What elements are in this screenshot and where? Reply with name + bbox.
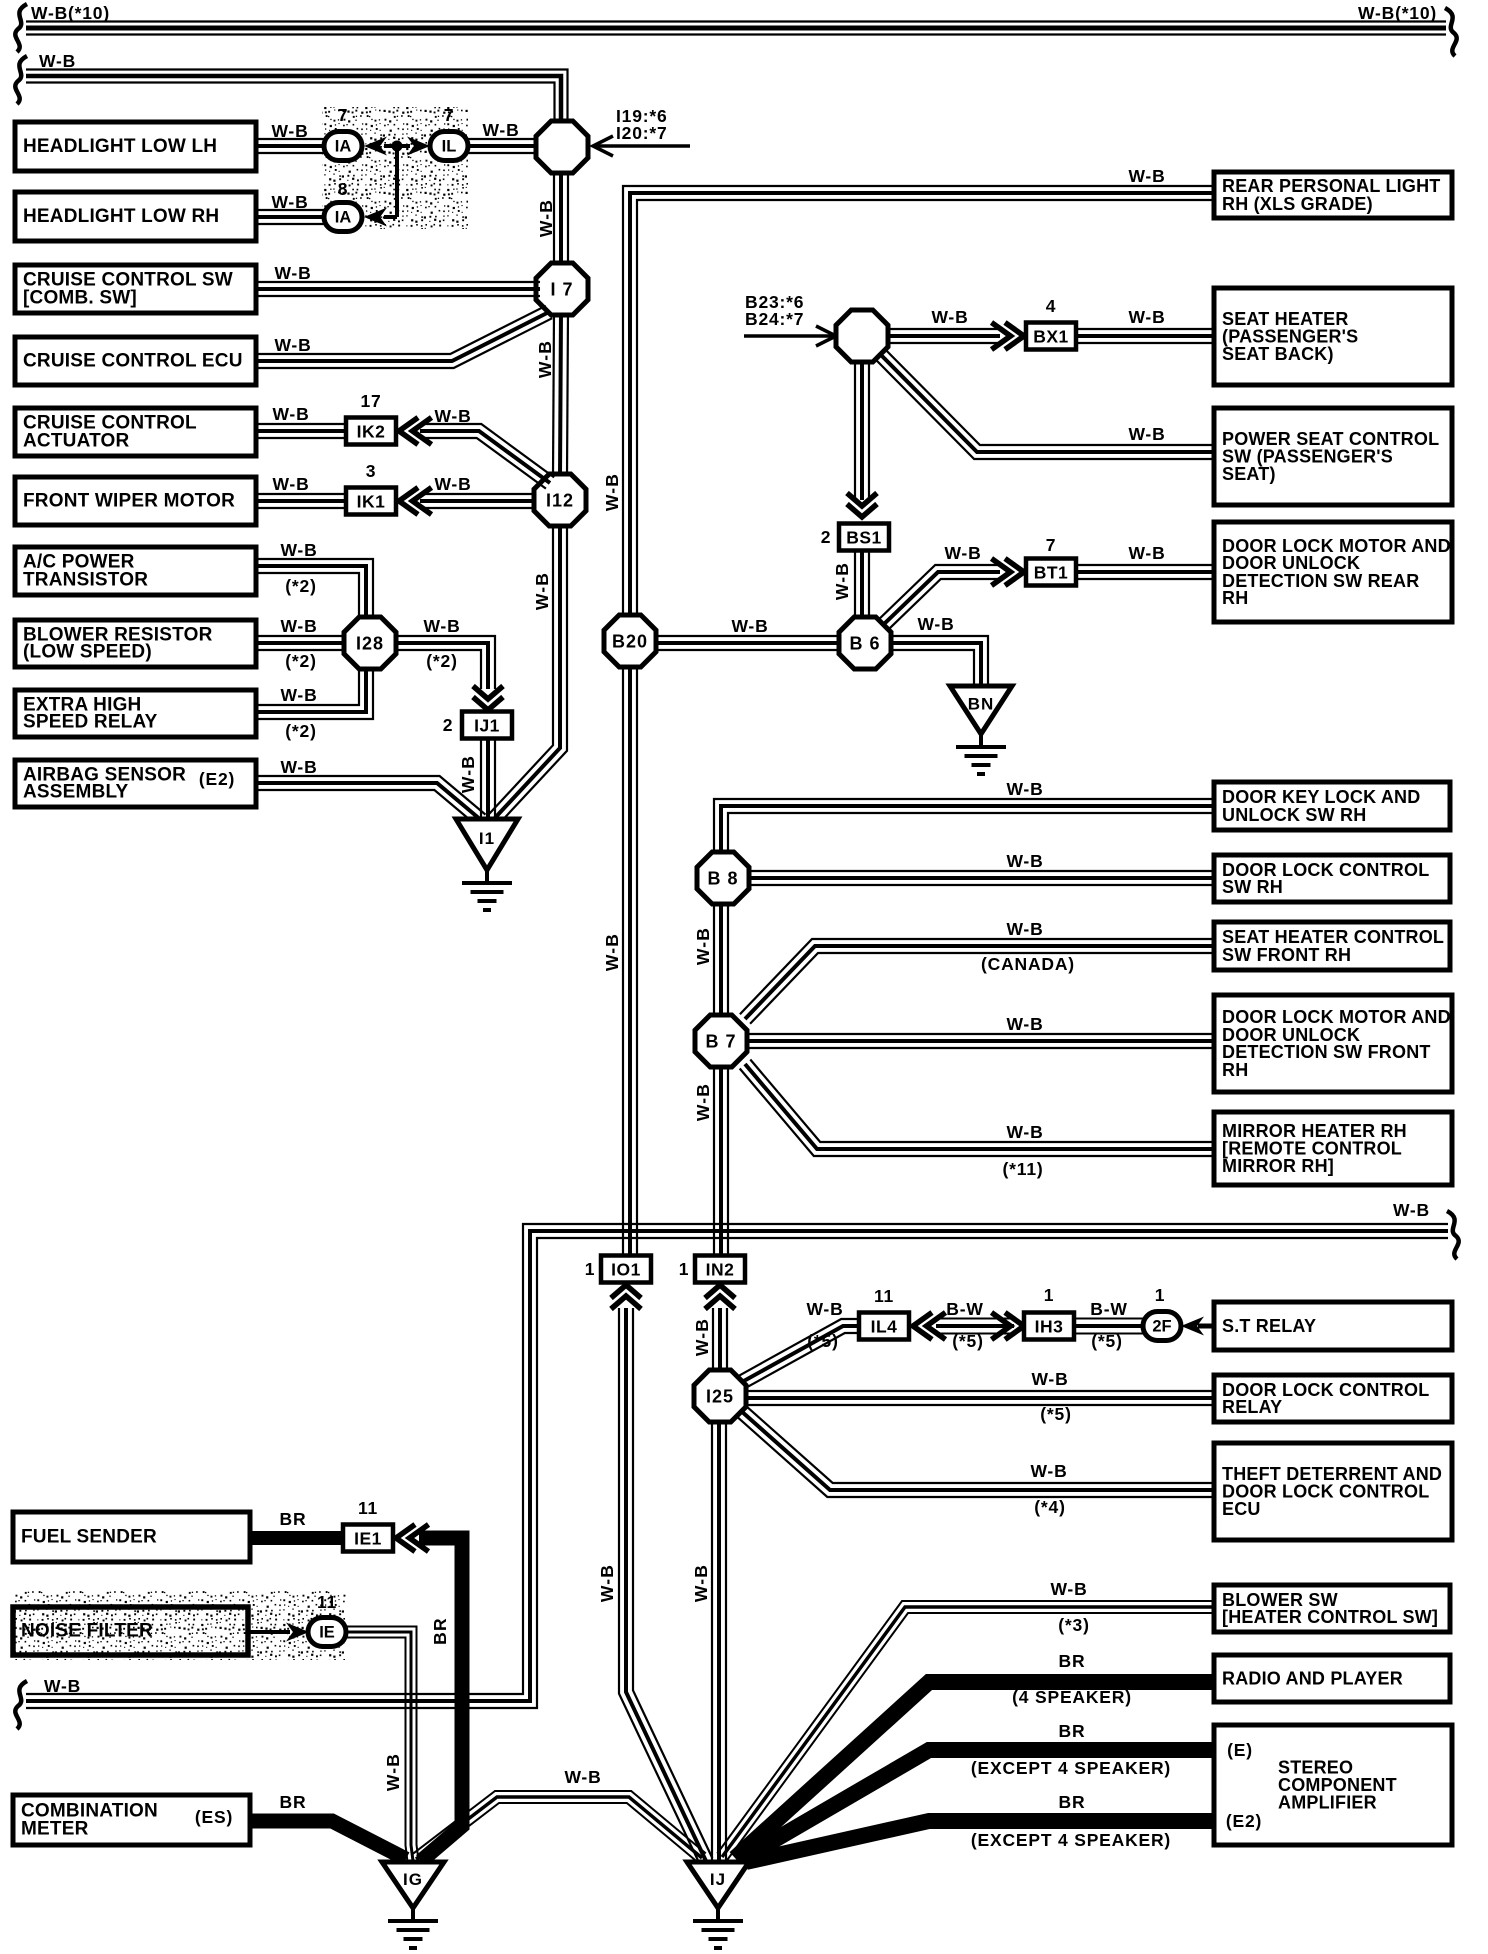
- box SEAT HEATER: [1214, 288, 1452, 385]
- svg-text:2: 2: [821, 527, 832, 547]
- box NOISE FILTER: [13, 1607, 248, 1655]
- wire B-W IL4 to IH3: [936, 1319, 1014, 1334]
- svg-text:BN: BN: [968, 695, 995, 714]
- svg-text:RADIO AND PLAYER: RADIO AND PLAYER: [1222, 1669, 1403, 1689]
- svg-text:W-B: W-B: [39, 51, 76, 71]
- wire B6 to BT1: [878, 565, 1000, 630]
- svg-text:METER: METER: [21, 1818, 89, 1839]
- label W-B seat heater control: [1006, 919, 1043, 939]
- chevron below IN2: [705, 1285, 735, 1309]
- svg-text:HEADLIGHT LOW LH: HEADLIGHT LOW LH: [23, 136, 217, 157]
- svg-text:(EXCEPT 4 SPEAKER): (EXCEPT 4 SPEAKER): [971, 1830, 1171, 1850]
- wire IO1 to IJ: [619, 1308, 712, 1864]
- svg-text:4: 4: [1046, 296, 1057, 316]
- label (ES) combination: [195, 1807, 233, 1827]
- svg-text:AMPLIFIER: AMPLIFIER: [1278, 1793, 1377, 1813]
- svg-text:W-B: W-B: [944, 543, 981, 563]
- connector IA lower: [324, 203, 362, 232]
- wire IK1 to I12: [420, 494, 535, 508]
- label W-B front wiper left: [272, 474, 309, 494]
- svg-text:W-B: W-B: [564, 1767, 601, 1787]
- svg-text:IL4: IL4: [871, 1317, 898, 1337]
- svg-text:BR: BR: [1059, 1792, 1086, 1812]
- svg-text:W-B: W-B: [423, 616, 460, 636]
- pin 1 IN2: [679, 1259, 690, 1279]
- label BR radio: [1059, 1651, 1086, 1671]
- svg-text:W-B: W-B: [280, 685, 317, 705]
- ground IG: [382, 1862, 444, 1948]
- svg-text:2: 2: [443, 715, 454, 735]
- label W-B cruise actuator left: [272, 404, 309, 424]
- svg-text:B-W: B-W: [946, 1299, 983, 1319]
- chevron BX1: [992, 323, 1025, 350]
- wire blower resistor to I28: [252, 636, 345, 650]
- pin 8 IA lower: [338, 179, 349, 199]
- label W-B I28 right: [423, 616, 460, 636]
- svg-text:(CANADA): (CANADA): [981, 954, 1075, 974]
- label W-B B6-BT1: [944, 543, 981, 563]
- wire IK2 to I12: [420, 424, 554, 489]
- label W-B door key: [1006, 779, 1043, 799]
- svg-text:BT1: BT1: [1034, 563, 1069, 583]
- box DOOR LOCK CONTROL RELAY: [1214, 1375, 1452, 1422]
- label W-B(*10) right: [1358, 3, 1437, 23]
- chevron BT1: [992, 559, 1025, 586]
- svg-text:W-B: W-B: [280, 757, 317, 777]
- wire I25 to IJ: [712, 1420, 726, 1860]
- label W-B second bus: [39, 51, 76, 71]
- svg-text:[COMB. SW]: [COMB. SW]: [23, 287, 137, 308]
- junction dot headlight: [384, 141, 410, 218]
- label W-B power seat: [1128, 424, 1165, 444]
- svg-text:SPEED RELAY: SPEED RELAY: [23, 712, 158, 733]
- wire IN2 to I25: [713, 1308, 727, 1373]
- svg-text:BR: BR: [1059, 1721, 1086, 1741]
- break symbol second bus left: [15, 56, 27, 104]
- box MIRROR HEATER RH: [1214, 1112, 1452, 1185]
- label BR vertical: [430, 1617, 450, 1645]
- wire cruise control ecu to I7: [252, 306, 552, 368]
- wire IE to IG: [346, 1627, 419, 1862]
- svg-text:W-B: W-B: [693, 927, 713, 965]
- label W-B headlight lh: [271, 121, 308, 141]
- label W-B mirror heater: [1006, 1122, 1043, 1142]
- svg-text:W-B: W-B: [1050, 1579, 1087, 1599]
- wire a/c power transistor to I28: [252, 559, 373, 620]
- wire cruise actuator to IK2: [252, 424, 347, 438]
- wire B7 to mirror heater: [740, 1060, 1212, 1157]
- bus W-B second: [26, 70, 568, 127]
- box RADIO AND PLAYER: [1214, 1655, 1450, 1702]
- label W-B blower resistor: [280, 616, 317, 636]
- svg-text:IO1: IO1: [611, 1260, 641, 1280]
- label W-B IN2-I25: [692, 1318, 712, 1356]
- wire I7 to I12: [553, 311, 568, 476]
- svg-text:W-B: W-B: [917, 614, 954, 634]
- svg-text:W-B: W-B: [383, 1753, 403, 1791]
- junction octagon unlabeled B23: [836, 310, 888, 362]
- connector IH3: [1024, 1313, 1074, 1340]
- svg-text:W-B: W-B: [1006, 851, 1043, 871]
- svg-text:W-B: W-B: [535, 340, 555, 378]
- svg-text:(*11): (*11): [1003, 1159, 1044, 1179]
- arrow to IA lower: [364, 208, 387, 227]
- svg-text:FRONT WIPER MOTOR: FRONT WIPER MOTOR: [23, 491, 235, 512]
- label W-B vertical B20 upper: [602, 473, 622, 511]
- label W-B IE wire: [383, 1753, 403, 1791]
- svg-text:W-B: W-B: [271, 121, 308, 141]
- svg-text:BR: BR: [280, 1509, 307, 1529]
- wire B20 to B6: [654, 636, 842, 650]
- pin 1 2F: [1155, 1285, 1166, 1305]
- svg-text:SEAT): SEAT): [1222, 464, 1276, 484]
- svg-text:(EXCEPT 4 SPEAKER): (EXCEPT 4 SPEAKER): [971, 1758, 1171, 1778]
- label BR stereo E: [1059, 1721, 1086, 1741]
- label (*11) mirror heater: [1003, 1159, 1044, 1179]
- break symbol right middle: [1447, 1211, 1459, 1259]
- wire octagon2 down to BS1: [855, 360, 869, 500]
- label W-B airbag: [280, 757, 317, 777]
- label W-B IJ1-I1: [458, 755, 478, 793]
- label W-B bottom bus: [44, 1676, 81, 1696]
- connector IE1: [343, 1525, 393, 1552]
- label W-B BT1-box: [1128, 543, 1165, 563]
- svg-text:17: 17: [360, 391, 381, 411]
- label W-B B6-BN: [917, 614, 954, 634]
- svg-text:W-B: W-B: [931, 307, 968, 327]
- label (EXCEPT 4 SPEAKER) E: [971, 1758, 1171, 1778]
- label B-W 2: [1090, 1299, 1127, 1319]
- svg-text:W-B: W-B: [272, 404, 309, 424]
- svg-text:TRANSISTOR: TRANSISTOR: [23, 569, 148, 590]
- junction I28: [344, 617, 396, 669]
- pin 7 BT1: [1046, 535, 1057, 555]
- wire fuel sender to IE1 BR: [249, 1531, 345, 1545]
- connector IL: [430, 132, 468, 161]
- label W-B cruise sw: [274, 263, 311, 283]
- svg-text:(*5): (*5): [1040, 1404, 1071, 1424]
- svg-text:W-B: W-B: [1128, 307, 1165, 327]
- label W-B right middle: [1393, 1200, 1430, 1220]
- junction I25: [694, 1370, 746, 1422]
- wire headlight low lh to IA: [252, 139, 330, 153]
- shaded region noise filter: [15, 1590, 346, 1660]
- wire IJ1 to ground I1: [481, 738, 495, 820]
- label W-B vertical IO1: [597, 1564, 617, 1602]
- wire I25 to door lock relay: [745, 1391, 1212, 1405]
- svg-text:RH: RH: [1222, 588, 1248, 608]
- svg-text:W-B(*10): W-B(*10): [31, 3, 110, 23]
- svg-text:W-B: W-B: [458, 755, 478, 793]
- wire BX1 to seat heater box: [1076, 329, 1212, 343]
- svg-text:(E2): (E2): [1226, 1811, 1262, 1831]
- svg-text:W-B: W-B: [731, 616, 768, 636]
- svg-text:W-B(*10): W-B(*10): [1358, 3, 1437, 23]
- svg-text:B 6: B 6: [849, 634, 880, 654]
- svg-text:BR: BR: [1059, 1651, 1086, 1671]
- chevron below IO1: [611, 1285, 641, 1309]
- wire IL to octagon: [462, 139, 540, 153]
- svg-text:W-B: W-B: [536, 199, 556, 237]
- wire I12 to ground I1: [488, 524, 567, 825]
- svg-text:IA: IA: [335, 209, 352, 227]
- chevron IL4: [913, 1313, 946, 1340]
- svg-text:BR: BR: [280, 1792, 307, 1812]
- svg-text:2F: 2F: [1152, 1318, 1171, 1336]
- svg-text:W-B: W-B: [1128, 166, 1165, 186]
- svg-text:ECU: ECU: [1222, 1499, 1261, 1519]
- svg-text:7: 7: [444, 105, 455, 125]
- label (E2) stereo: [1226, 1811, 1262, 1831]
- wire airbag to ground I1: [252, 776, 486, 825]
- arrow B23 B24 into octagon: [744, 326, 836, 346]
- connector IN2: [695, 1256, 745, 1283]
- svg-text:W-B: W-B: [271, 192, 308, 212]
- box DOOR LOCK MOTOR FRONT RH: [1214, 995, 1452, 1092]
- svg-text:W-B: W-B: [272, 474, 309, 494]
- label W-B octagon2-BX1: [931, 307, 968, 327]
- svg-text:IN2: IN2: [706, 1260, 735, 1280]
- label W-B IL-octagon: [482, 120, 519, 140]
- box CRUISE CONTROL ACTUATOR: [15, 408, 256, 456]
- arrow to IL: [407, 137, 430, 156]
- chevron above IJ1: [473, 686, 503, 710]
- svg-text:I12: I12: [546, 491, 574, 511]
- svg-text:W-B: W-B: [274, 335, 311, 355]
- box DOOR LOCK CONTROL SW RH: [1214, 855, 1450, 902]
- chevron IK1: [399, 488, 432, 515]
- svg-text:W-B: W-B: [434, 474, 471, 494]
- label W-B blower sw: [1050, 1579, 1087, 1599]
- label (*2) blower resistor: [285, 651, 316, 671]
- svg-text:[HEATER CONTROL SW]: [HEATER CONTROL SW]: [1222, 1607, 1438, 1627]
- label W-B headlight rh: [271, 192, 308, 212]
- svg-text:I28: I28: [356, 634, 384, 654]
- label I20:*7: [616, 123, 668, 143]
- svg-text:RH: RH: [1222, 1060, 1248, 1080]
- svg-text:W-B: W-B: [280, 540, 317, 560]
- svg-text:ASSEMBLY: ASSEMBLY: [23, 782, 129, 803]
- svg-text:7: 7: [338, 105, 349, 125]
- label (*2) I28 right: [426, 651, 457, 671]
- svg-text:W-B: W-B: [482, 120, 519, 140]
- wire B7 to seat heater control sw: [740, 939, 1212, 1024]
- svg-text:BS1: BS1: [846, 528, 882, 548]
- svg-text:(LOW SPEED): (LOW SPEED): [23, 642, 152, 663]
- pin 11 IE1: [358, 1498, 378, 1518]
- box AIRBAG SENSOR ASSEMBLY: [15, 760, 256, 807]
- connector BS1: [839, 524, 889, 551]
- svg-text:I20:*7: I20:*7: [616, 123, 668, 143]
- chevron IK2: [399, 418, 432, 445]
- label W-B extra high: [280, 685, 317, 705]
- svg-text:1: 1: [1155, 1285, 1166, 1305]
- svg-text:IE1: IE1: [354, 1529, 382, 1549]
- ground IJ: [687, 1862, 749, 1948]
- label W-B cruise actuator right: [434, 406, 471, 426]
- arrow noise filter to IE: [248, 1623, 309, 1642]
- svg-text:W-B: W-B: [1006, 919, 1043, 939]
- svg-text:BR: BR: [430, 1617, 450, 1645]
- svg-text:B20: B20: [612, 632, 648, 652]
- pin 2 BS1: [821, 527, 832, 547]
- label W-B B8-B7: [693, 927, 713, 965]
- connector IO1: [601, 1256, 651, 1283]
- connector BT1: [1026, 559, 1076, 586]
- svg-text:11: 11: [358, 1498, 378, 1518]
- svg-text:11: 11: [874, 1286, 894, 1306]
- svg-text:W-B: W-B: [1128, 424, 1165, 444]
- label W-B door lock front: [1006, 1014, 1043, 1034]
- svg-text:IE: IE: [319, 1624, 335, 1642]
- svg-text:IK2: IK2: [357, 422, 386, 442]
- svg-text:ACTUATOR: ACTUATOR: [23, 430, 130, 451]
- svg-text:(*2): (*2): [426, 651, 457, 671]
- wire B7 to door lock front: [747, 1034, 1212, 1048]
- chevron IH3: [992, 1313, 1025, 1340]
- svg-text:UNLOCK SW RH: UNLOCK SW RH: [1222, 805, 1366, 825]
- wire BR IJ to stereo E2: [746, 1821, 1212, 1862]
- svg-text:(*5): (*5): [952, 1331, 983, 1351]
- label W-B a/c: [280, 540, 317, 560]
- label B23:*6: [745, 292, 804, 312]
- wire rear personal light to B20: [623, 186, 1212, 620]
- connector IK1: [346, 488, 396, 515]
- box CRUISE CONTROL SW: [15, 265, 256, 313]
- connector IJ1: [462, 712, 512, 739]
- pin 7 IA upper: [338, 105, 349, 125]
- label W-B IG-IJ: [564, 1767, 601, 1787]
- svg-text:W-B: W-B: [532, 572, 552, 610]
- ground I1: [456, 819, 518, 910]
- svg-text:W-B: W-B: [1006, 1014, 1043, 1034]
- junction octagon unlabeled top: [536, 121, 588, 173]
- wire front wiper to IK1: [252, 494, 347, 508]
- svg-text:B24:*7: B24:*7: [745, 309, 804, 329]
- label (E2) airbag: [199, 769, 235, 789]
- ground BN: [950, 686, 1012, 774]
- svg-text:DETECTION SW REAR: DETECTION SW REAR: [1222, 571, 1419, 591]
- chevron above BS1: [847, 493, 877, 517]
- wire cruise control sw to I7: [252, 282, 540, 296]
- svg-text:CRUISE CONTROL ECU: CRUISE CONTROL ECU: [23, 351, 243, 372]
- svg-text:(ES): (ES): [195, 1807, 233, 1827]
- label (*5) I25-IL4: [807, 1331, 838, 1351]
- connector IL4: [859, 1313, 909, 1340]
- box COMBINATION METER: [13, 1795, 250, 1845]
- wire BR IJ to stereo E: [740, 1750, 1212, 1860]
- svg-text:W-B: W-B: [1006, 1122, 1043, 1142]
- svg-text:SW FRONT RH: SW FRONT RH: [1222, 945, 1351, 965]
- wire B-W IH3 to 2F: [1073, 1319, 1146, 1334]
- wire combination meter BR to IG: [249, 1821, 406, 1859]
- svg-text:W-B: W-B: [434, 406, 471, 426]
- pin 4 BX1: [1046, 296, 1057, 316]
- bus W-B bottom left to right edge: [26, 1224, 1448, 1708]
- wire IJ to blower sw: [717, 1601, 1212, 1861]
- svg-text:(*3): (*3): [1058, 1615, 1089, 1635]
- pin 11 IL4: [874, 1286, 894, 1306]
- svg-text:W-B: W-B: [274, 263, 311, 283]
- label W-B BS1-B6: [832, 562, 852, 600]
- arrow to IA upper: [364, 137, 387, 156]
- label (*5) 2: [952, 1331, 983, 1351]
- junction I 7: [536, 263, 588, 315]
- label BR stereo E2: [1059, 1792, 1086, 1812]
- svg-text:W-B: W-B: [602, 473, 622, 511]
- svg-text:(*2): (*2): [285, 721, 316, 741]
- wire headlight low rh to IA: [252, 210, 330, 224]
- svg-text:IJ1: IJ1: [474, 716, 500, 736]
- label W-B below B7: [693, 1083, 713, 1121]
- label (EXCEPT 4 SPEAKER) E2: [971, 1830, 1171, 1850]
- svg-text:W-B: W-B: [1393, 1200, 1430, 1220]
- label B24:*7: [745, 309, 804, 329]
- svg-text:W-B: W-B: [806, 1299, 843, 1319]
- svg-text:(E): (E): [1227, 1740, 1253, 1760]
- break symbol top right: [1445, 8, 1457, 56]
- label W-B vertical below I12: [532, 572, 552, 610]
- box SEAT HEATER CONTROL SW: [1214, 922, 1450, 970]
- svg-text:HEADLIGHT LOW RH: HEADLIGHT LOW RH: [23, 206, 219, 227]
- svg-text:1: 1: [585, 1259, 596, 1279]
- svg-text:IG: IG: [403, 1870, 423, 1889]
- box FRONT WIPER MOTOR: [15, 477, 256, 525]
- label I19:*6: [616, 106, 668, 126]
- svg-text:DETECTION SW FRONT: DETECTION SW FRONT: [1222, 1042, 1431, 1062]
- svg-text:11: 11: [317, 1592, 337, 1612]
- svg-text:(*2): (*2): [285, 651, 316, 671]
- pin 17 IK2: [360, 391, 381, 411]
- label (*4) theft: [1034, 1497, 1065, 1517]
- wire extra high speed relay to I28: [252, 667, 373, 719]
- svg-text:W-B: W-B: [693, 1083, 713, 1121]
- svg-text:(*4): (*4): [1034, 1497, 1065, 1517]
- label W-B vertical octagon-I7: [536, 199, 556, 237]
- box DOOR KEY LOCK: [1214, 782, 1450, 830]
- svg-text:W-B: W-B: [597, 1564, 617, 1602]
- svg-text:W-B: W-B: [1030, 1461, 1067, 1481]
- label W-B vertical I25: [691, 1564, 711, 1602]
- box A/C POWER TRANSISTOR: [15, 547, 256, 595]
- wire B7 down to IN2: [714, 1066, 728, 1258]
- chevron IE1: [396, 1525, 429, 1552]
- svg-text:BX1: BX1: [1033, 327, 1069, 347]
- svg-text:7: 7: [1046, 535, 1057, 555]
- svg-text:W-B: W-B: [1006, 779, 1043, 799]
- label B-W 1: [946, 1299, 983, 1319]
- label (E) stereo: [1227, 1740, 1253, 1760]
- svg-text:B-W: B-W: [1090, 1299, 1127, 1319]
- junction B20: [604, 615, 656, 667]
- junction B 7: [695, 1015, 747, 1067]
- svg-text:I1: I1: [479, 829, 495, 848]
- label W-B theft: [1030, 1461, 1067, 1481]
- wire B20 down to IO1: [623, 665, 637, 1258]
- wire octagon2 to BX1: [886, 329, 1000, 343]
- pin 3 IK1: [366, 461, 377, 481]
- svg-text:S.T RELAY: S.T RELAY: [1222, 1316, 1316, 1336]
- junction I12: [534, 474, 586, 526]
- wire IG to IJ link: [412, 1791, 705, 1864]
- svg-text:W-B: W-B: [691, 1564, 711, 1602]
- junction B 8: [697, 852, 749, 904]
- wire I25 to IL4: [739, 1319, 860, 1388]
- svg-text:W-B: W-B: [280, 616, 317, 636]
- svg-text:W-B: W-B: [692, 1318, 712, 1356]
- svg-text:IA: IA: [335, 138, 352, 156]
- pin 1 IO1: [585, 1259, 596, 1279]
